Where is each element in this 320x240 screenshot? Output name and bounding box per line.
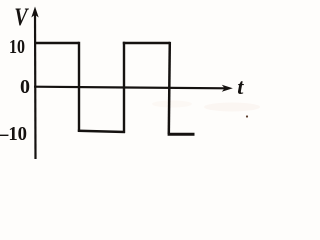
y-axis V line [34, 12, 37, 159]
wire: low segment 2 at -10 [168, 133, 195, 136]
y-axis arrowhead [31, 7, 38, 18]
svg-text:10: 10 [9, 36, 25, 58]
wire: high segment 2 at +10 [123, 42, 170, 44]
wire: rising edge [123, 42, 125, 133]
wire: low segment 1 at -10 [78, 131, 125, 132]
wire: falling edge 2 [169, 42, 170, 134]
faint scan smudge [204, 103, 260, 112]
speck dot [246, 115, 248, 117]
svg-text:V: V [14, 3, 29, 31]
wire: high segment 1 at +10 [35, 42, 79, 44]
svg-text:t: t [237, 74, 244, 99]
wire: falling edge 1 [78, 42, 80, 132]
svg-text:0: 0 [20, 76, 30, 98]
x-axis arrowhead [222, 85, 233, 92]
svg-text:–10: –10 [0, 123, 27, 145]
x-axis t line [34, 87, 227, 89]
